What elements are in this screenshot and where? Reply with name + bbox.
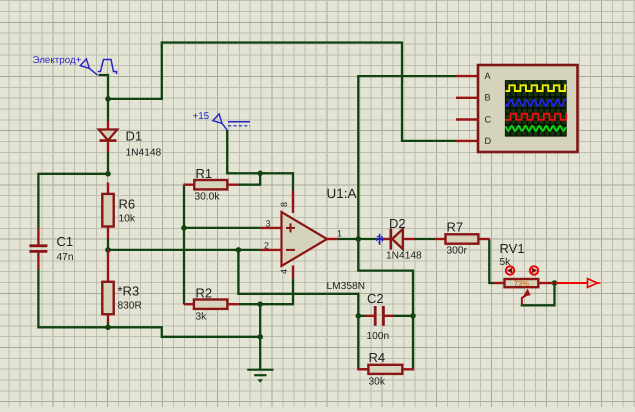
svg-text:RV1: RV1 <box>500 241 525 256</box>
svg-text:D: D <box>485 136 492 146</box>
oscilloscope body <box>478 65 578 152</box>
svg-text:+15: +15 <box>193 111 210 122</box>
node ground top junction <box>257 301 263 307</box>
resistor R2 <box>184 303 194 305</box>
wire R2 right to ground node <box>239 303 260 305</box>
svg-text:D2: D2 <box>389 216 406 231</box>
svg-text:Электрод+: Электрод+ <box>33 55 82 66</box>
wire red output with arrow <box>556 282 588 284</box>
node D1/R6/C1 junction <box>105 171 111 177</box>
svg-text:LM358N: LM358N <box>327 281 366 292</box>
wire C2 right plate stub <box>392 315 413 317</box>
svg-text:3: 3 <box>266 218 271 228</box>
svg-text:30k: 30k <box>369 377 386 388</box>
wire D1 cathode to node R6 top <box>107 151 109 174</box>
wire feedback: pin2 node down and right to C2 left <box>238 250 358 316</box>
svg-text:1N4148: 1N4148 <box>126 148 162 159</box>
node C2 right junction <box>410 313 416 319</box>
ground <box>247 369 273 371</box>
svg-text:R1: R1 <box>196 166 213 181</box>
wire R4 left stub <box>358 368 368 370</box>
node R3 bottom <box>105 325 111 331</box>
diode D2 <box>380 238 393 240</box>
diode D1 <box>107 121 109 130</box>
scope trace C red <box>505 114 566 120</box>
resistor R3 <box>107 250 109 282</box>
svg-text:300r: 300r <box>447 246 468 257</box>
wire R1 right pin up to +15 rail <box>238 173 260 184</box>
svg-text:1N4148: 1N4148 <box>386 251 422 262</box>
resistor R6 <box>107 183 109 195</box>
wire electrode junction to scope D <box>108 43 456 141</box>
svg-text:R7: R7 <box>447 220 464 235</box>
wire C2 left junction down to R4 left <box>357 316 359 370</box>
node pin3 divider junction <box>181 225 187 231</box>
wire output to D2 anode <box>358 238 380 240</box>
svg-text:R6: R6 <box>119 197 136 212</box>
svg-text:4: 4 <box>279 269 289 274</box>
svg-text:C: C <box>485 114 492 124</box>
node +15/R1 junction <box>257 171 263 177</box>
wire pin3 node to op-amp pin 3 <box>184 227 261 229</box>
wire node to C1 top <box>38 174 108 228</box>
svg-text:100n: 100n <box>367 331 390 342</box>
svg-text:3k: 3k <box>196 312 208 323</box>
wire output down to C2/R4 right side <box>358 239 413 369</box>
oscilloscope screen <box>505 80 567 137</box>
svg-text:47n: 47n <box>57 252 74 263</box>
scope trace D green <box>506 126 566 131</box>
oscilloscope pin C <box>456 118 478 120</box>
wire op-amp output junction <box>338 238 359 240</box>
oscilloscope pin D <box>456 140 478 142</box>
node feedback tap on pin2 wire <box>236 247 242 253</box>
capacitor C2 <box>366 315 374 317</box>
svg-text:8: 8 <box>279 202 289 207</box>
wire C1 bottom to ground rail <box>38 269 260 337</box>
svg-text:30.0k: 30.0k <box>195 192 221 203</box>
node marker at D2 anchor <box>376 236 382 242</box>
wire RV1 wiper loop to right terminal <box>522 283 555 305</box>
wire R6 bottom node to op-amp pin 2 <box>108 249 261 251</box>
node ground rail junction <box>257 334 263 340</box>
electrode pulse glyph <box>98 60 117 75</box>
oscilloscope pin A <box>456 75 478 77</box>
resistor R7 <box>435 238 446 240</box>
wire +15 terminal down to rail <box>227 130 293 191</box>
RV1 decrement button <box>506 266 514 274</box>
svg-text:*R3: *R3 <box>118 284 140 299</box>
wire output up to scope A <box>358 76 456 239</box>
scope trace A yellow <box>506 85 567 91</box>
svg-text:D1: D1 <box>126 129 143 144</box>
svg-text:A: A <box>485 71 492 81</box>
svg-text:B: B <box>485 93 491 103</box>
RV1 wiper arrow <box>522 295 526 305</box>
svg-text:C1: C1 <box>57 234 74 249</box>
resistor R1 <box>183 183 194 185</box>
svg-text:2: 2 <box>264 240 269 250</box>
wire R3 bottom stub <box>107 322 109 327</box>
wire op-amp pin4 down to ground node <box>260 278 293 304</box>
oscilloscope pin B <box>456 97 478 99</box>
wire junction down to D1 anode <box>107 99 109 121</box>
wire R7 right down to RV1 left <box>489 239 494 283</box>
resistor R4 <box>357 368 368 370</box>
node op-amp output <box>356 236 362 242</box>
electrode terminal symbol <box>80 59 89 69</box>
node R6 bottom <box>105 247 111 253</box>
wire ground node down <box>259 304 261 370</box>
capacitor C1 <box>37 228 39 245</box>
power terminal +15 <box>213 114 222 124</box>
node C2 left junction <box>356 313 362 319</box>
svg-text:R4: R4 <box>369 350 386 365</box>
wire R6 bottom to pin2 node <box>107 238 109 250</box>
node RV1 right/wiper junction <box>552 280 558 286</box>
svg-text:1: 1 <box>337 228 342 238</box>
wire electrode terminal to junction <box>99 75 108 99</box>
RV1 increment button <box>530 266 538 274</box>
svg-text:73%: 73% <box>514 279 529 288</box>
svg-text:C2: C2 <box>367 291 384 306</box>
op-amp U1:A <box>261 227 282 229</box>
svg-text:10k: 10k <box>119 214 136 225</box>
wire R1 left down to pin3 node and R2 left <box>183 185 185 305</box>
scope trace B blue <box>506 100 566 106</box>
svg-text:U1:A: U1:A <box>327 186 357 201</box>
wire C2 left plate stub <box>358 315 366 317</box>
node electrode junction <box>105 96 111 102</box>
svg-text:830R: 830R <box>118 301 142 312</box>
wire D2 cathode to R7 <box>414 238 435 240</box>
potentiometer RV1 <box>494 282 505 284</box>
svg-text:R2: R2 <box>196 286 213 301</box>
